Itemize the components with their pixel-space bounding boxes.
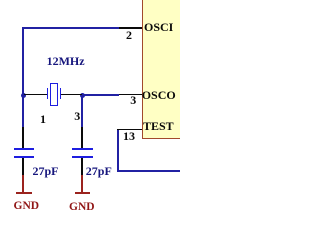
- crystal Y1 pin 1 lead: [24, 94, 48, 96]
- pin 2 (OSCI): [118, 27, 142, 29]
- capacitor C1 top plate: [14, 148, 35, 150]
- pin TEST name: [143, 120, 174, 132]
- ground label GND right: [69, 202, 95, 214]
- ground label GND left: [14, 201, 40, 213]
- crystal pin number 1: [40, 113, 46, 125]
- wire right vertical: [81, 94, 83, 128]
- capacitor C1 bottom lead: [22, 158, 24, 176]
- pin number 3: [130, 94, 136, 106]
- wire top horizontal (OSCI net): [22, 27, 119, 29]
- capacitor C1 bottom plate: [14, 156, 35, 158]
- wire left vertical: [22, 27, 24, 128]
- wire crystal row right (OSCO net): [81, 94, 119, 96]
- ground symbol right bar: [75, 192, 91, 194]
- pin number 2: [126, 29, 132, 41]
- crystal pin number 3: [74, 110, 80, 122]
- ground symbol left stub: [22, 175, 24, 193]
- capacitor C1 value 27pF: [33, 165, 59, 177]
- pin 13 (TEST): [117, 129, 142, 131]
- crystal Y1 right plate: [60, 88, 62, 99]
- capacitor C1 top lead: [22, 127, 24, 149]
- IC U1 (yellow block, partially visible): [142, 0, 184, 139]
- pin 3 (OSCO): [118, 94, 142, 96]
- wire TEST bottom horizontal: [117, 170, 181, 172]
- pin OSCO name: [142, 89, 176, 101]
- pin OSCI name: [144, 21, 173, 33]
- junction node right: [80, 93, 85, 98]
- capacitor C2 bottom lead: [81, 158, 83, 176]
- wire TEST vertical: [117, 130, 119, 172]
- capacitor C2 bottom plate: [72, 156, 93, 158]
- capacitor C2 top plate: [72, 148, 93, 150]
- pin number 13: [123, 130, 135, 142]
- junction node left: [21, 93, 26, 98]
- crystal Y1 left plate: [47, 88, 49, 99]
- crystal Y1 body rectangle: [50, 83, 58, 107]
- crystal Y1 pin 3 lead: [61, 94, 82, 96]
- capacitor C2 value 27pF: [86, 165, 112, 177]
- crystal Y1 value 12MHz: [47, 55, 85, 67]
- capacitor C2 top lead: [81, 127, 83, 149]
- ground symbol right stub: [81, 175, 83, 193]
- ground symbol left bar: [16, 192, 32, 194]
